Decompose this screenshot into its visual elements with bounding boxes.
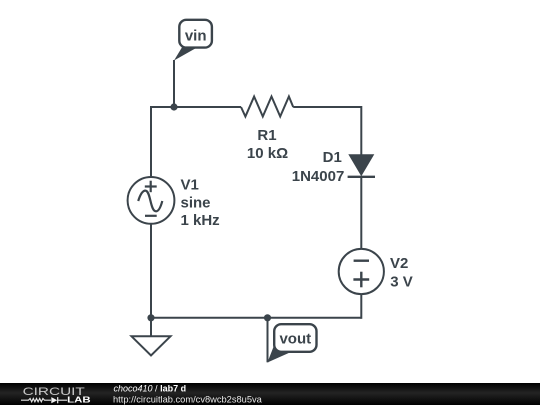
wire right lower [360,294,362,319]
wire top-left segment [151,106,242,108]
svg-text:R1: R1 [257,127,276,144]
svg-text:1 kHz: 1 kHz [181,212,220,229]
footer bar [0,383,540,405]
wire bottom [150,317,361,319]
label R1 value [247,127,288,162]
svg-text:vin: vin [185,27,207,44]
svg-text:D1: D1 [323,149,342,166]
svg-text:http://circuitlab.com/cv8wcb2s: http://circuitlab.com/cv8wcb2s8u5va [113,394,263,404]
svg-text:1N4007: 1N4007 [292,168,345,185]
node vin callout [174,20,212,107]
ground [132,318,171,356]
svg-text:10 kΩ: 10 kΩ [247,145,288,162]
svg-text:vout: vout [279,331,311,348]
junction vout [264,314,271,321]
label V1 value [181,177,220,229]
svg-text:LAB: LAB [67,395,91,405]
node vout callout [267,318,316,363]
logo squiggle [21,397,67,403]
diode D1 [348,154,375,177]
wire left upper [150,106,152,178]
junction vin [170,103,177,110]
wire right upper [360,106,362,155]
wire left lower [150,223,152,319]
svg-text:V2: V2 [390,255,408,272]
wire right middle [360,177,362,249]
label D1 value [292,149,345,185]
junction ground [147,314,154,321]
svg-text:V1: V1 [181,177,199,194]
svg-text:sine: sine [181,195,211,212]
svg-text:choco410 / lab7 d: choco410 / lab7 d [114,383,187,393]
svg-text:3 V: 3 V [390,273,413,290]
wire top-right segment [293,106,361,108]
voltage source V2 [339,249,384,294]
label V2 value [390,255,413,290]
voltage source V1 [128,177,175,224]
resistor R1 [241,97,293,117]
